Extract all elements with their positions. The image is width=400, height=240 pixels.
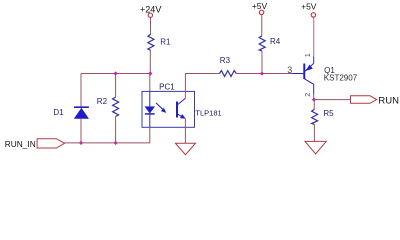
wire bottom net (D1 to R2 to LED cathode) xyxy=(81,127,150,143)
wire D1 top lead xyxy=(80,74,82,108)
transistor Q1 base bar xyxy=(303,64,305,80)
wire R2 bottom lead xyxy=(115,117,117,143)
wire junction to R5 xyxy=(313,100,315,110)
power port +5V (above Q1) xyxy=(301,1,317,17)
svg-text:+5V: +5V xyxy=(252,1,268,11)
resistor R3 xyxy=(220,71,237,77)
wire junction to RUN port xyxy=(314,99,351,101)
resistor R2 xyxy=(113,97,119,117)
svg-text:KST2907: KST2907 xyxy=(324,73,358,82)
phototransistor base bar of PC1 xyxy=(176,102,178,118)
wire emitter down to ground xyxy=(184,119,186,144)
node junction R2 top xyxy=(114,71,118,75)
Q1 collector pin down xyxy=(313,84,315,94)
Q1 base pin xyxy=(292,73,305,75)
svg-text:D1: D1 xyxy=(53,108,64,117)
wire D1 bottom lead xyxy=(80,118,82,142)
LED pin inside box (anode) xyxy=(149,91,151,107)
port RUN flag xyxy=(351,96,377,104)
wire +5V to R4 xyxy=(261,15,263,36)
svg-text:R4: R4 xyxy=(270,37,281,46)
svg-text:R2: R2 xyxy=(97,97,108,106)
node junction D1 bottom xyxy=(79,141,83,145)
svg-text:RUN_IN: RUN_IN xyxy=(5,139,36,149)
ground below PC1 xyxy=(175,143,195,155)
port RUN_IN flag xyxy=(37,139,65,148)
wire +24V to R1 xyxy=(150,17,152,34)
resistor R4 xyxy=(259,36,265,51)
svg-text:1: 1 xyxy=(305,53,312,57)
wire RUN_IN to bottom net xyxy=(65,142,81,144)
power port +24V xyxy=(140,5,161,18)
Q1 emitter diagonal with PNP arrow xyxy=(305,63,314,71)
node junction R4 bottom xyxy=(260,71,264,75)
wire R3 to R4 junction to Q1 base xyxy=(236,73,292,75)
node junction R2 bottom xyxy=(114,141,118,145)
wire R2 top lead xyxy=(115,74,117,98)
wire R1 bottom lead xyxy=(149,50,151,73)
optocoupler U PC1 box xyxy=(142,91,195,127)
svg-text:R5: R5 xyxy=(323,109,334,118)
phototransistor collector diagonal xyxy=(178,98,186,104)
resistor R1 xyxy=(148,34,154,50)
wire LED anode (junction to PC1 box) xyxy=(149,74,151,92)
svg-text:TLP181: TLP181 xyxy=(195,108,221,117)
phototransistor emitter diagonal with arrow xyxy=(178,114,186,119)
svg-text:PC1: PC1 xyxy=(159,82,175,91)
Q1 collector diagonal xyxy=(305,79,314,85)
wire R5 to ground xyxy=(313,124,315,141)
node junction R1 / LED anode xyxy=(148,71,152,75)
power port +5V (above R4) xyxy=(252,1,268,15)
svg-text:3: 3 xyxy=(287,65,292,75)
svg-text:R3: R3 xyxy=(220,56,231,65)
wire collector up and right to R3 xyxy=(185,74,219,99)
wire emitter to +5V xyxy=(313,17,315,56)
node junction Q1 collector / R5 / RUN xyxy=(312,98,316,102)
resistor R5 xyxy=(312,109,318,124)
wire net A horizontal (D1 to R1/LED junction) xyxy=(81,73,150,75)
ground below R5 xyxy=(305,141,326,153)
svg-text:RUN: RUN xyxy=(378,96,399,107)
diode D1 xyxy=(74,107,89,118)
wire collector to junction xyxy=(313,94,315,100)
svg-text:2: 2 xyxy=(305,93,312,97)
LED of PC1 xyxy=(145,107,155,114)
svg-text:R1: R1 xyxy=(160,37,171,46)
light arrow inside PC1 xyxy=(156,103,166,113)
svg-text:+5V: +5V xyxy=(301,1,317,11)
wire R4 bottom lead xyxy=(261,51,263,74)
Q1 emitter pin up xyxy=(313,57,315,64)
LED pin inside box (cathode) xyxy=(149,114,151,128)
